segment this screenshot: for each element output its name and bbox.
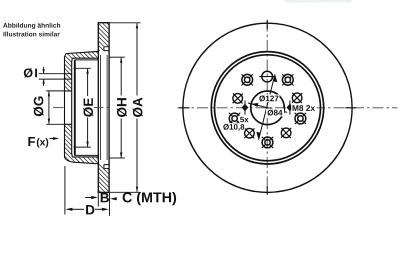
M8 hole right (filled diamond)	[287, 100, 294, 114]
outer circle	[183, 23, 352, 192]
dimension ØI	[43, 67, 45, 86]
label ØE (rotated)	[83, 98, 93, 116]
wheel bolt hole 2 (Ø10,8)	[242, 74, 253, 85]
faint scan artifact top edge	[284, 0, 352, 3]
ring bottom notch lines	[103, 165, 105, 169]
service hole 5	[281, 128, 291, 138]
service hole 1	[292, 93, 302, 103]
label ØG (rotated)	[33, 97, 43, 117]
vertical centerline	[266, 21, 268, 195]
ring top notch lines	[103, 47, 105, 51]
wheel bolt hole 1 (Ø10,8)	[282, 74, 293, 85]
hat bottom wall + flange lower part (hatched)	[65, 124, 99, 164]
Ø127 dimension line	[259, 74, 275, 140]
bore silhouette lines (flange faces through bore gap)	[64, 91, 66, 124]
dimension ØG	[46, 91, 64, 124]
left view centerline marks	[53, 107, 64, 109]
label M8 2x	[291, 104, 317, 112]
wheel bolt hole 5 (Ø10,8)	[295, 113, 306, 124]
label ØH (rotated)	[117, 98, 127, 117]
ring face inner chamfer lines	[99, 55, 101, 160]
label Ø84	[266, 109, 284, 117]
label ØI	[24, 68, 33, 77]
brake ring section (hatched top block)	[98, 23, 109, 52]
ring outline	[98, 23, 109, 193]
bolt hole lines in flange (ØI)	[39, 73, 72, 75]
middle circle (outer of pair)	[211, 52, 323, 164]
dimension ØE	[74, 68, 91, 147]
middle circle (inner of pair)	[215, 55, 321, 161]
wheel bolt hole 3 (Ø10,8)	[229, 113, 240, 124]
brake ring section (hatched bottom block)	[98, 164, 109, 193]
dimension ØH	[109, 57, 125, 158]
label Ø10,8	[222, 123, 245, 131]
label ØA (rotated)	[133, 98, 143, 117]
label B	[101, 193, 109, 202]
label Ø127	[222, 95, 317, 131]
label C (MTH)	[123, 192, 177, 205]
dimension D	[64, 166, 66, 215]
Ø84 dimension line	[248, 103, 287, 112]
hat inner silhouette lines	[75, 59, 99, 61]
label F(x) with leader arrow	[28, 137, 35, 146]
label 5x	[239, 116, 249, 123]
service hole 4	[244, 128, 254, 138]
horizontal centerline	[178, 107, 398, 109]
centerline ticks at circle crossings	[179, 20, 357, 195]
wheel bolt hole 4 (Ø10,8)	[262, 137, 273, 148]
hat top wall + flange upper part (hatched)	[65, 51, 99, 91]
center bore circle	[251, 91, 285, 125]
label D	[86, 205, 94, 214]
M8 hole left (filled diamond)	[242, 100, 249, 114]
dimension ØA	[109, 23, 140, 193]
note: Abbildung ähnlich / Illustration similar	[3, 23, 60, 29]
service hole 3	[233, 93, 243, 103]
dimension B	[97, 193, 99, 207]
service hole 2	[259, 71, 275, 82]
